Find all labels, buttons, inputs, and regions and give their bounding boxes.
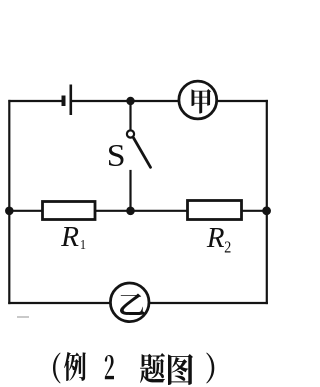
wire right rail [266, 101, 268, 303]
wire battery to node A [72, 100, 131, 102]
caption open paren [53, 352, 60, 383]
wire node A to ammeter [131, 100, 180, 102]
node B junction [126, 207, 135, 216]
resistor R2 [188, 201, 242, 220]
label R2 [207, 228, 224, 247]
label S [109, 145, 123, 166]
caption digit 2 [105, 355, 114, 379]
wire middle-left to R1 [9, 210, 42, 212]
wire R2 to right rail [242, 210, 267, 212]
node A junction [126, 97, 134, 105]
caption char li [64, 352, 86, 381]
wire bottom-left horizontal [9, 302, 110, 304]
resistor R1 [43, 202, 96, 220]
node left-middle junction [5, 207, 14, 216]
battery B1 [62, 85, 71, 116]
node right-middle junction [262, 206, 271, 215]
wire top-left horizontal [10, 100, 63, 102]
voltmeter U2 label yi [120, 293, 144, 315]
wire ammeter to top-right corner [217, 100, 267, 102]
ammeter U1 circle [179, 81, 217, 119]
voltmeter U2 circle [110, 283, 149, 322]
caption char tu [168, 354, 193, 385]
switch S pivot [127, 130, 134, 137]
wire faint artifact [17, 316, 29, 318]
ammeter U1 label jia [192, 89, 212, 113]
wire left rail [8, 101, 10, 303]
caption char ti [140, 353, 165, 383]
wire switch lower lead [129, 171, 131, 211]
caption close paren [206, 352, 214, 383]
switch S blade [134, 138, 151, 167]
wire voltmeter to bottom-right corner [150, 302, 267, 304]
wire node B to R2 [131, 210, 188, 212]
label R1 [61, 227, 78, 246]
wire R1 to node B [95, 210, 131, 212]
wire switch upper lead [129, 103, 131, 130]
